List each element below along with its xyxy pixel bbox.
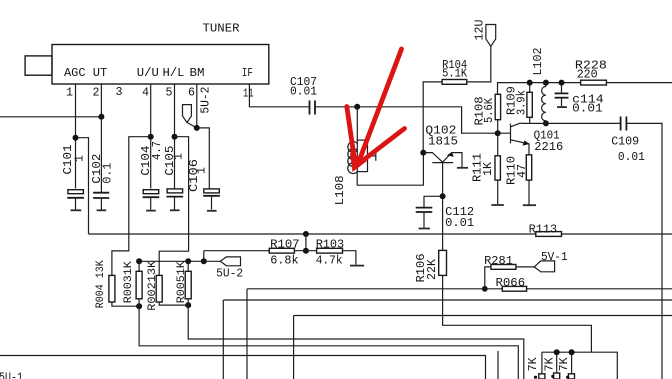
svg-text:IF: IF xyxy=(242,66,253,80)
ground Q102 emitter xyxy=(457,167,468,169)
svg-text:0.01: 0.01 xyxy=(445,216,474,230)
resistor 4.7K b xyxy=(542,352,559,379)
wire R111 bottom xyxy=(497,180,499,204)
ground R110 xyxy=(523,204,536,206)
resistor R066 xyxy=(496,276,527,291)
ground C104 xyxy=(146,210,156,212)
node R107 top junction xyxy=(303,231,309,237)
node Q101 base junction xyxy=(495,130,501,136)
svg-text:0.01: 0.01 xyxy=(572,102,603,116)
svg-text:1: 1 xyxy=(72,155,86,162)
wire C104 to ground xyxy=(150,198,152,210)
svg-text:1815: 1815 xyxy=(428,135,458,149)
ground C102 xyxy=(97,209,107,211)
ground C101 xyxy=(71,209,82,211)
node pin6 junction xyxy=(194,125,200,131)
resistor R107 6.8k xyxy=(269,237,299,267)
svg-text:4.7: 4.7 xyxy=(150,141,164,160)
wire pin6 down xyxy=(196,84,198,128)
svg-text:5U-1: 5U-1 xyxy=(0,371,23,379)
svg-text:5V-1: 5V-1 xyxy=(541,250,568,264)
svg-text:AGC: AGC xyxy=(64,66,86,80)
resistor 4.7K a xyxy=(526,352,545,379)
resistor R110 47 xyxy=(505,155,532,185)
resistor R003 1K xyxy=(123,261,142,303)
node pin1/C101 junction xyxy=(73,135,79,141)
node stray a xyxy=(534,376,537,379)
node R005 top xyxy=(185,258,191,264)
svg-text:1K: 1K xyxy=(481,161,495,176)
resistor R103 4.7k xyxy=(316,237,345,267)
node Q102 collector junction xyxy=(420,150,426,156)
svg-text:12U: 12U xyxy=(473,20,487,41)
wire C102 to ground xyxy=(100,199,102,210)
wire bus line B xyxy=(223,300,672,379)
node stray b xyxy=(551,375,554,378)
ground R111 xyxy=(491,204,503,206)
svg-text:BM: BM xyxy=(190,66,205,80)
wire R108 bottom to base line xyxy=(497,120,499,134)
transistor Q102 1815 xyxy=(423,124,462,168)
svg-text:C106: C106 xyxy=(187,159,201,192)
wire R281 left lead down xyxy=(485,267,491,289)
svg-text:22K: 22K xyxy=(425,258,439,280)
ground c114 xyxy=(557,106,567,108)
resistor R109 3.9k xyxy=(505,83,533,118)
wire pin1 branch to bus xyxy=(76,138,89,234)
wire C106 to ground xyxy=(211,197,213,210)
wire Q101 collector line to C109 xyxy=(521,122,620,124)
svg-text:5.6K: 5.6K xyxy=(482,97,496,123)
svg-text:11: 11 xyxy=(243,87,254,101)
svg-text:2: 2 xyxy=(93,86,100,100)
svg-text:L108: L108 xyxy=(333,175,347,205)
wire R106 bottom to bus xyxy=(443,275,592,352)
svg-text:5U-2: 5U-2 xyxy=(216,266,243,280)
wire bus line C xyxy=(294,316,672,379)
svg-text:R00213K: R00213K xyxy=(147,260,159,310)
capacitor C106 xyxy=(187,159,220,196)
ground C112 xyxy=(419,228,430,230)
svg-text:TUNER: TUNER xyxy=(203,22,240,36)
wire pin11 IF line xyxy=(249,84,308,107)
svg-text:L102: L102 xyxy=(531,48,545,76)
wire R104 left to Q102 collector node xyxy=(423,82,442,153)
resistor R002 13K xyxy=(147,260,162,310)
wire R004 bottom to R003 bottom xyxy=(112,302,139,306)
svg-text:R103: R103 xyxy=(316,237,345,251)
wire 12V down to R104 xyxy=(467,46,491,82)
svg-text:R066: R066 xyxy=(496,276,526,290)
wire IF line from C107 to Q101 base xyxy=(316,107,510,133)
node R003 bottom xyxy=(136,303,142,309)
svg-text:47: 47 xyxy=(515,164,529,178)
power flag 5V-2 xyxy=(216,257,243,281)
wire C101 to ground xyxy=(75,199,77,210)
svg-text:R0031K: R0031K xyxy=(123,261,135,303)
ground R103 xyxy=(350,265,364,267)
svg-text:5.1K: 5.1K xyxy=(442,67,468,81)
wire base node down to R111 xyxy=(497,133,499,156)
red annotation arrow xyxy=(347,49,405,172)
svg-text:4: 4 xyxy=(142,86,149,100)
node L108 top junction xyxy=(354,104,360,110)
capacitor C109 xyxy=(611,117,645,165)
resistor 4.7K c xyxy=(557,352,574,379)
svg-text:7K: 7K xyxy=(542,357,556,372)
svg-text:R004 13K: R004 13K xyxy=(95,260,107,308)
node C112 junction xyxy=(440,193,446,199)
svg-text:0.1: 0.1 xyxy=(101,163,115,184)
wire pin5 branch to R002 xyxy=(159,137,188,276)
wire R066 line xyxy=(247,288,672,290)
wire stray vertical xyxy=(497,351,499,379)
wire R003 bottom bus down-right xyxy=(139,299,518,379)
node L102 top xyxy=(543,80,549,86)
svg-text:U/U: U/U xyxy=(137,66,159,80)
node 5V-2 junction xyxy=(201,258,207,264)
node R109 top xyxy=(527,80,533,86)
wire pin6 to C106 xyxy=(197,128,210,189)
svg-text:3.9k: 3.9k xyxy=(514,90,528,115)
svg-text:1: 1 xyxy=(172,153,186,160)
resistor R005 1K xyxy=(176,261,191,303)
resistor R104 5.1K xyxy=(442,58,468,84)
svg-text:1: 1 xyxy=(66,86,73,100)
wire pin4 down to C104 xyxy=(150,84,152,189)
wire R107 left lead xyxy=(204,251,356,265)
resistor R106 22K xyxy=(414,250,446,282)
wire AGC line to left edge xyxy=(0,116,101,118)
power flag 5V-1 xyxy=(534,250,567,272)
wire pin5 down to C105 xyxy=(174,84,176,189)
node 7K rail R3 xyxy=(569,349,575,355)
wire R281 right lead xyxy=(516,266,534,268)
node c114 top xyxy=(559,80,565,86)
wire 5V-2 node riser xyxy=(203,251,205,262)
node stray c xyxy=(566,376,569,379)
node 7K rail R2 xyxy=(554,349,560,355)
tuner antenna connector stub xyxy=(25,56,52,75)
svg-text:0.01: 0.01 xyxy=(618,150,645,164)
wire R109 bottom to collector line xyxy=(529,117,531,123)
svg-text:6.8k: 6.8k xyxy=(270,253,299,267)
capacitor C104 xyxy=(139,141,164,197)
wire R002 bottom to R005 bottom xyxy=(159,302,188,305)
wire bus AGC/AFT line xyxy=(89,233,672,235)
wire R107/R103 junction riser xyxy=(305,234,307,251)
capacitor C101 xyxy=(61,145,87,198)
transistor Q101 2216 xyxy=(511,123,564,155)
svg-text:220: 220 xyxy=(577,68,598,82)
node pin4 junction xyxy=(148,134,154,140)
resistor R111 1K xyxy=(471,153,501,182)
svg-text:R107: R107 xyxy=(270,237,300,251)
tuner block U-TUNER xyxy=(52,22,269,85)
wire bus line D full width xyxy=(0,356,486,379)
inductor L102 xyxy=(531,48,546,124)
svg-text:R113: R113 xyxy=(529,223,558,237)
wire C109 right down xyxy=(627,123,662,379)
svg-text:R281: R281 xyxy=(484,254,513,268)
node R107/R103 junction xyxy=(303,248,309,254)
node R005 bottom xyxy=(185,302,191,308)
svg-text:0.01: 0.01 xyxy=(290,85,317,99)
node R003 top xyxy=(136,258,142,264)
svg-text:UT: UT xyxy=(93,66,108,80)
resistor R281 xyxy=(484,254,516,269)
inductor L108 tuned coil xyxy=(333,107,376,206)
resistor R113 xyxy=(529,223,562,237)
capacitor C107 xyxy=(290,75,317,115)
wire R005 bottom bus down-right xyxy=(188,299,524,379)
svg-text:R0051K: R0051K xyxy=(176,261,188,303)
wire Q102 base down xyxy=(442,163,444,251)
ground C106 xyxy=(207,210,217,212)
resistor R004 13K xyxy=(95,260,115,308)
svg-text:1: 1 xyxy=(195,167,209,174)
power flag 12V xyxy=(473,20,496,47)
svg-text:5: 5 xyxy=(166,86,173,100)
ground C105 xyxy=(170,209,180,211)
svg-text:C109: C109 xyxy=(611,134,639,148)
node L102 bottom xyxy=(543,120,549,126)
svg-text:6: 6 xyxy=(188,86,195,100)
wire pin1 down to C101 xyxy=(75,84,77,189)
wire resistor top rail xyxy=(139,260,220,262)
capacitor C105 xyxy=(163,146,186,197)
svg-text:5U-2: 5U-2 xyxy=(199,87,213,114)
node pin2/AGC junction xyxy=(98,114,104,120)
capacitor C102 xyxy=(90,154,115,198)
capacitor C112 xyxy=(416,196,474,230)
resistor R108 5.6K xyxy=(473,94,501,125)
wire C105 to ground xyxy=(174,197,176,209)
power flag 5V-2 at pin6 xyxy=(183,87,213,128)
wire 7K rail xyxy=(542,352,617,379)
capacitor c114 0.01 xyxy=(555,83,604,116)
svg-text:7K: 7K xyxy=(526,357,540,372)
wire R066 line left drop xyxy=(246,289,248,379)
node R281/R066 junction xyxy=(482,286,488,292)
svg-text:7K: 7K xyxy=(557,357,571,372)
wire pin4 branch to R004 xyxy=(112,137,151,276)
resistor R228 220 xyxy=(575,58,607,85)
wire pin2 down to C102 xyxy=(100,84,102,192)
node pin5 junction xyxy=(172,134,178,140)
wire supply rail right xyxy=(498,83,672,95)
svg-text:H/L: H/L xyxy=(163,66,185,80)
wire L108 bottom to Q102 node xyxy=(357,153,423,186)
svg-text:4.7k: 4.7k xyxy=(316,253,343,267)
svg-text:3: 3 xyxy=(116,85,123,99)
wire R110 bottom xyxy=(528,180,530,204)
svg-text:2216: 2216 xyxy=(534,140,563,154)
